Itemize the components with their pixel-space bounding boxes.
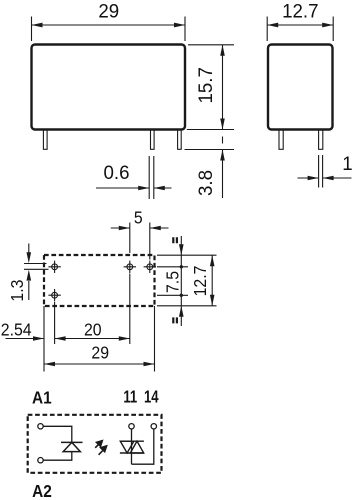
hole 11 (144, 261, 156, 273)
wire A1 to LED (43, 426, 72, 442)
svg-text:A2: A2 (32, 482, 52, 500)
dimension 3.8: arrow from below (222, 150, 224, 199)
wire LED to A2 (43, 452, 72, 461)
relay body front view (32, 45, 186, 130)
hole A2 (48, 289, 60, 301)
dimension 3.8: extension line (185, 149, 235, 151)
svg-text:7.5: 7.5 (162, 271, 182, 293)
svg-text:29: 29 (91, 342, 109, 362)
wire 11 through triac (131, 429, 133, 464)
equal-mark dimension line with 7.5 dots (180, 236, 182, 326)
terminal A2 (38, 458, 43, 463)
terminal A1 (38, 424, 43, 429)
svg-text:15.7: 15.7 (196, 67, 217, 103)
dimension 12.7 top: line (267, 24, 333, 26)
svg-text:11: 11 (123, 388, 137, 407)
terminal 11 (129, 424, 134, 429)
hole 14 (124, 261, 136, 273)
dimension 12.7 top: extension lines (267, 17, 333, 42)
footprint right extension lines (157, 255, 217, 306)
svg-text:29: 29 (98, 1, 119, 22)
dimension 7.5: dot terminators (180, 265, 183, 268)
footprint bottom extension lines (44, 274, 155, 372)
dimension 1: arrow lines (298, 177, 352, 179)
dimension 1: arrowheads (308, 176, 334, 181)
dimension 5: extension lines (130, 223, 150, 260)
svg-text:1: 1 (342, 154, 352, 175)
schematic outline dashed (28, 415, 162, 473)
front pin 11 (151, 130, 155, 150)
front pin 14 (178, 130, 182, 150)
footprint outline dashed (44, 255, 155, 306)
svg-text:3.8: 3.8 (196, 170, 217, 196)
relay body side view (268, 45, 333, 130)
dimension 15.7: line (222, 45, 224, 130)
dimension 15.7: extension lines (187, 45, 234, 130)
svg-text:5: 5 (134, 207, 143, 227)
dimension 3.8: stub between extents (222, 137, 224, 144)
dimension 29 top: arrowheads (32, 23, 186, 28)
dimension 29 top: line (32, 24, 186, 26)
svg-text:12.7: 12.7 (190, 266, 210, 297)
side pin right (319, 130, 323, 150)
dimension 0.6: arrowheads (138, 186, 165, 191)
equal mark bottom (173, 317, 177, 323)
dimension 20: line (55, 338, 130, 340)
terminal 14 (151, 424, 156, 429)
dimension 5: arrowheads (119, 226, 161, 231)
dimension 12.7 footprint: line (211, 255, 213, 306)
svg-text:12.7: 12.7 (282, 1, 318, 22)
dimension 1.3: tangent lines (24, 264, 49, 270)
triac output (120, 441, 144, 453)
optocoupler light arrows (95, 441, 106, 455)
dimension 5: arrow lines (111, 227, 169, 229)
dimension 1.3: arrows (28, 244, 30, 301)
svg-text:1.3: 1.3 (7, 280, 27, 302)
dimension 0.6: arrow lines (96, 187, 172, 189)
svg-text:0.6: 0.6 (103, 163, 129, 184)
svg-text:20: 20 (84, 319, 102, 339)
dimension 0.6: extension lines (149, 156, 154, 199)
svg-text:A1: A1 (32, 389, 52, 408)
dimension 15.7: arrowheads (220, 45, 225, 130)
hole A1 (48, 261, 60, 273)
equal mark top (173, 237, 177, 243)
dimension 1: extension lines (319, 155, 323, 188)
LED input diode (61, 442, 83, 451)
side pin left (279, 130, 283, 150)
dimension 2.54: arrow line (6, 338, 45, 340)
front pin A1/A2 (43, 130, 47, 150)
dimension 29 top: extension lines (32, 17, 186, 42)
dimension 29 bottom: line (44, 363, 155, 365)
svg-text:14: 14 (144, 388, 159, 407)
dimension 12.7 top: arrowheads (267, 23, 333, 28)
svg-text:2.54: 2.54 (1, 319, 32, 339)
wire triac to 14 (132, 429, 154, 464)
